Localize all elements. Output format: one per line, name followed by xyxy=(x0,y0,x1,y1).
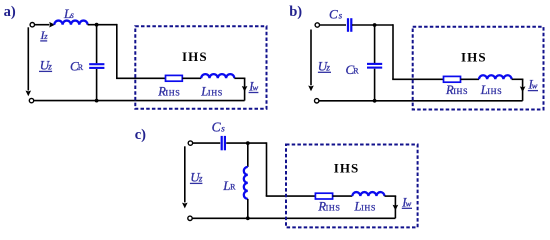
svg-text:IHS: IHS xyxy=(361,203,376,212)
svg-text:R: R xyxy=(230,182,236,191)
svg-text:w: w xyxy=(253,83,259,93)
svg-text:R: R xyxy=(353,67,359,76)
svg-text:IHS: IHS xyxy=(182,49,208,64)
svg-text:IHS: IHS xyxy=(208,88,223,97)
svg-text:b): b) xyxy=(289,4,302,20)
svg-text:z: z xyxy=(43,31,48,41)
svg-text:R: R xyxy=(78,63,84,72)
svg-text:s: s xyxy=(70,10,74,20)
svg-text:C: C xyxy=(329,6,338,21)
svg-text:IHS: IHS xyxy=(326,203,341,212)
svg-text:IHS: IHS xyxy=(165,88,180,97)
svg-text:c): c) xyxy=(135,127,146,143)
svg-text:w: w xyxy=(532,81,538,91)
svg-text:z: z xyxy=(325,62,330,72)
svg-text:z: z xyxy=(198,174,203,184)
svg-text:IHS: IHS xyxy=(334,160,360,175)
svg-text:s: s xyxy=(339,10,343,20)
svg-text:IHS: IHS xyxy=(453,87,468,96)
svg-text:w: w xyxy=(406,198,412,208)
svg-text:z: z xyxy=(47,61,52,71)
svg-text:IHS: IHS xyxy=(461,50,487,65)
svg-text:C: C xyxy=(212,120,222,135)
svg-text:IHS: IHS xyxy=(487,87,502,96)
svg-text:s: s xyxy=(221,124,225,134)
svg-text:a): a) xyxy=(4,4,16,20)
